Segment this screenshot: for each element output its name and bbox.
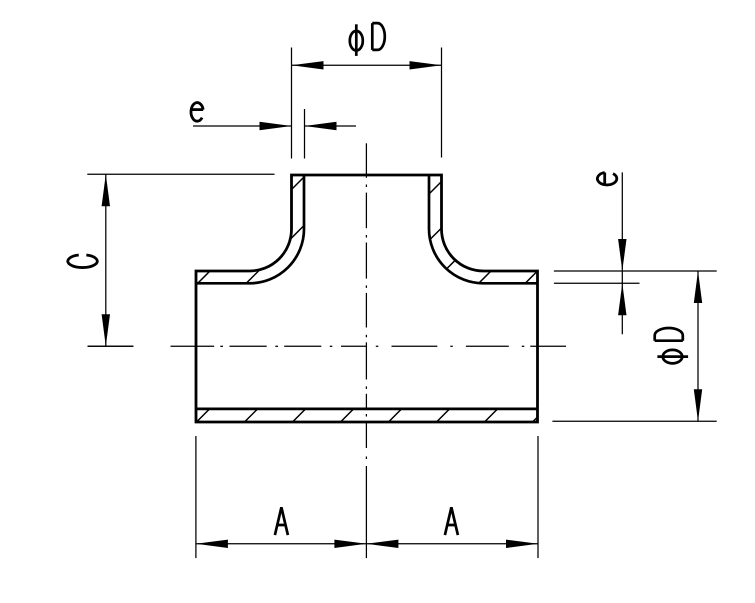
hatching left wall and crotch [198,177,304,283]
dimension line A right [366,540,538,548]
label phi D right [655,328,688,363]
extension line top of tee for C [87,173,274,175]
tee bore inner line left [196,175,304,283]
tee bore inner line right [429,175,538,283]
dimension line C [102,174,110,346]
vertical centreline of branch [365,143,367,558]
dimension leader e top [193,122,356,130]
label phi D top [350,23,385,56]
hatching right wall and crotch [429,182,538,284]
extension line left for top phi D [291,48,293,159]
dimension line A left [196,540,367,548]
label A left [275,507,288,535]
tee body outer profile [196,175,538,422]
label A right [445,507,458,535]
label e right [597,172,616,184]
extension line run centreline for C [88,345,134,347]
extension line right for top phi D [441,48,443,158]
extension line branch inner wall [304,109,306,159]
dimension line phi D right [694,271,702,421]
extension line left end bottom [195,436,197,558]
tee bore inner line bottom [196,408,538,411]
horizontal centreline of run [88,345,567,347]
extension line run top outer right [554,270,717,272]
dimension line top phi D [292,61,442,69]
label C left [68,255,97,268]
hatching bottom wall [197,409,538,422]
extension line run bottom outer right [552,420,716,422]
dimension line e right [618,172,626,334]
extension line right end bottom [537,436,539,558]
extension line run top inner right [554,282,640,284]
label e top left [191,103,203,122]
